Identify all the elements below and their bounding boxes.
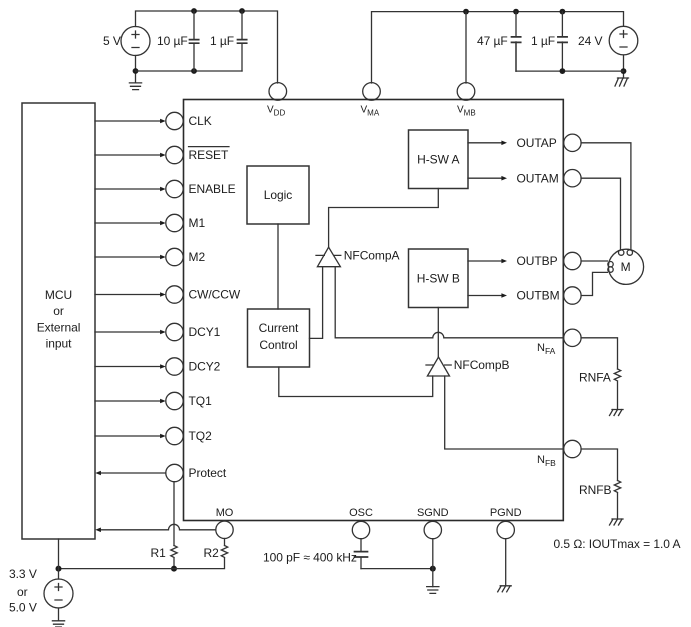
junction C3 top: [513, 9, 519, 15]
pin NFA: [564, 329, 581, 346]
svg-text:Control: Control: [259, 338, 297, 352]
wire NFB to RNFB: [581, 449, 617, 481]
svg-text:R1: R1: [151, 546, 167, 560]
svg-text:OUTBM: OUTBM: [517, 289, 560, 303]
svg-text:H-SW A: H-SW A: [417, 153, 459, 167]
svg-text:OUTAP: OUTAP: [517, 136, 557, 150]
svg-text:10 µF: 10 µF: [157, 34, 188, 48]
pin OUTBP: [564, 252, 581, 269]
svg-text:5 V: 5 V: [103, 34, 121, 48]
op-amp NFCompA: [316, 247, 341, 267]
arrow H-SW B to OUTBP: [468, 259, 507, 264]
svg-text:or: or: [17, 585, 28, 599]
pin VMB: [457, 83, 475, 101]
svg-text:input: input: [46, 337, 72, 351]
svg-text:NFCompB: NFCompB: [454, 358, 510, 372]
wire bottom-right rail: [516, 70, 624, 72]
pin SGND: [424, 521, 441, 538]
wire R2 to bus: [59, 558, 225, 568]
ground G7 (chassis): [498, 586, 512, 592]
wire MO to R2: [224, 539, 226, 546]
pin ENABLE: [95, 180, 183, 197]
junction V1 bottom: [133, 68, 139, 74]
wire NFCompA left input from Current Control: [310, 267, 323, 339]
wire Protect to R1: [173, 482, 175, 546]
wire C3 bottom stub: [515, 42, 517, 71]
H-SW A box: [409, 130, 469, 189]
capacitor C3 47uF: [512, 12, 521, 72]
svg-text:RNFA: RNFA: [579, 371, 611, 385]
svg-text:NFCompA: NFCompA: [344, 249, 400, 263]
ground G4 (chassis): [610, 519, 624, 525]
MCU box: [22, 103, 95, 539]
pin PGND: [497, 521, 514, 538]
junction C1 top: [191, 8, 197, 14]
wire RNFB to ground: [617, 493, 619, 519]
pin Protect (output to MCU): [95, 464, 183, 481]
junction V2 bottom: [621, 68, 627, 74]
wire OUTBM to motor: [581, 272, 607, 295]
wire V1 bottom to ground: [135, 56, 137, 83]
svg-text:OUTBP: OUTBP: [517, 254, 558, 268]
pin M2: [95, 248, 183, 265]
arrow H-SW A to OUTAP: [468, 141, 507, 146]
resistor RNFA: [614, 369, 620, 381]
svg-text:M: M: [621, 260, 631, 274]
power source V3 3.3/5.0V: [44, 579, 73, 608]
svg-text:47 µF: 47 µF: [477, 34, 508, 48]
svg-text:0.5 Ω: IOUTmax = 1.0 A: 0.5 Ω: IOUTmax = 1.0 A: [554, 537, 681, 551]
svg-text:Current: Current: [259, 321, 299, 335]
wire R1 to bus: [173, 558, 175, 568]
junction C4 top: [560, 9, 566, 15]
svg-text:TQ1: TQ1: [189, 394, 213, 408]
junction R1 bus: [171, 566, 177, 572]
pin DCY1: [95, 323, 183, 340]
wire top-right rail: [372, 12, 624, 83]
ground G2 (chassis): [615, 78, 629, 86]
motor M: [608, 249, 644, 284]
pin RESET (active low): [95, 146, 183, 163]
junction SGND: [430, 566, 436, 572]
svg-text:SGND: SGND: [417, 507, 449, 519]
svg-text:M2: M2: [189, 250, 206, 264]
pin OUTAP: [564, 134, 581, 151]
pin VMA: [363, 83, 381, 101]
svg-text:ENABLE: ENABLE: [189, 182, 236, 196]
svg-text:H-SW B: H-SW B: [417, 271, 460, 285]
ground G6 (bar): [427, 587, 439, 594]
resistor R1: [171, 546, 177, 558]
svg-text:CW/CCW: CW/CCW: [189, 288, 241, 302]
wire RNFA to ground: [617, 382, 619, 410]
junction C2 top: [239, 8, 245, 14]
svg-text:M1: M1: [189, 216, 206, 230]
wire V3 to ground: [58, 608, 60, 621]
wire VMB branch: [465, 12, 467, 83]
junction VMB branch: [463, 9, 469, 15]
arrow H-SW B to OUTBM: [468, 293, 507, 298]
wire H-SW B to NFCompB apex: [437, 308, 439, 358]
wire NFA to RNFA: [581, 338, 617, 369]
Current Control box: [248, 309, 310, 367]
pin M1: [95, 214, 183, 231]
wire PGND to ground: [505, 539, 507, 586]
capacitor C2 1uF: [238, 11, 247, 71]
svg-text:Protect: Protect: [189, 466, 227, 480]
wire NFCompB right input to node NFB: [445, 376, 564, 449]
svg-text:1 µF: 1 µF: [210, 34, 234, 48]
pin CLK: [95, 112, 183, 129]
svg-text:or: or: [53, 304, 64, 318]
svg-text:DCY1: DCY1: [189, 325, 221, 339]
junction C4 bottom: [560, 68, 566, 74]
wire bottom-left rail: [136, 70, 243, 72]
wire OUTBP to motor: [581, 260, 607, 262]
svg-text:R2: R2: [204, 546, 220, 560]
label 3.3 V or 5.0 V: [9, 567, 37, 614]
wire NFCompA right input to node NFA (hop over H-SW B line): [335, 267, 563, 338]
svg-text:MCU: MCU: [45, 288, 72, 302]
svg-text:OSC: OSC: [349, 507, 373, 519]
svg-text:MO: MO: [216, 507, 234, 519]
pin DCY2: [95, 358, 183, 375]
svg-text:RNFB: RNFB: [579, 483, 612, 497]
pin TQ1: [95, 392, 183, 409]
capacitor C1 10uF: [190, 11, 199, 71]
arrow H-SW A to OUTAM: [468, 176, 507, 181]
wire H-SW A to NFCompA apex: [329, 189, 439, 248]
Logic box U-logic: [247, 166, 309, 224]
svg-text:TQ2: TQ2: [189, 429, 213, 443]
wire MO to MCU (hop over R1 wire): [95, 524, 215, 532]
op-amp NFCompB: [426, 357, 451, 376]
pin MO: [216, 521, 233, 538]
power source V2 24V: [609, 26, 638, 55]
svg-text:5.0 V: 5.0 V: [9, 601, 37, 615]
junction C1 bottom: [191, 68, 197, 74]
resistor R2: [221, 546, 227, 558]
H-SW B box: [409, 249, 469, 308]
power source V1 5V: [121, 27, 150, 56]
MCU text: [37, 288, 81, 351]
pin OUTAM: [564, 170, 581, 187]
pin OUTBM: [564, 287, 581, 304]
svg-text:100 pF ≈ 400 kHz: 100 pF ≈ 400 kHz: [263, 551, 357, 565]
ground G5 (bar): [52, 621, 64, 627]
wire OUTAM to motor: [581, 178, 620, 250]
wire C5 to SGND node: [361, 568, 433, 570]
IC outline: [184, 100, 564, 521]
svg-text:DCY2: DCY2: [189, 360, 221, 374]
wire Current Control to NFCompB left input: [279, 367, 433, 397]
svg-text:OUTAM: OUTAM: [517, 171, 559, 185]
resistor RNFB: [614, 481, 620, 493]
wire OUTAP to motor: [581, 143, 631, 250]
pin OSC: [352, 521, 369, 538]
junction bus V3: [56, 566, 62, 572]
wire top-left rail: [136, 11, 278, 83]
svg-text:PGND: PGND: [490, 507, 522, 519]
wire SGND to ground: [432, 539, 434, 587]
pin VDD: [269, 83, 287, 101]
wire Logic to Current Control: [277, 224, 279, 309]
svg-text:RESET: RESET: [189, 148, 229, 162]
svg-text:External: External: [37, 320, 81, 334]
ground G3 (chassis): [610, 410, 624, 416]
svg-text:Logic: Logic: [264, 188, 292, 202]
capacitor C4 1uF: [558, 12, 567, 72]
pin CW/CCW: [95, 286, 183, 303]
svg-text:3.3 V: 3.3 V: [9, 567, 37, 581]
svg-text:CLK: CLK: [189, 114, 212, 128]
wire MCU to V3: [58, 539, 60, 579]
pin TQ2: [95, 427, 183, 444]
capacitor C5 100pF: [355, 539, 368, 569]
svg-text:24 V: 24 V: [578, 34, 603, 48]
wire V2 bottom: [623, 55, 625, 78]
pin NFB: [564, 440, 581, 457]
svg-text:1 µF: 1 µF: [531, 34, 555, 48]
ground G1 (bar): [129, 83, 141, 90]
